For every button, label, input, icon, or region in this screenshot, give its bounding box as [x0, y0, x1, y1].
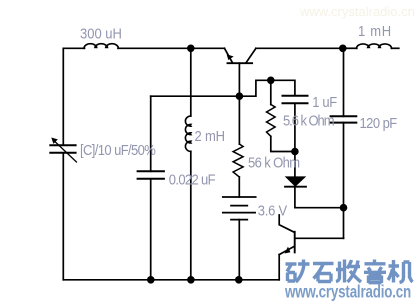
wire 1mH tail — [392, 47, 399, 49]
wire 5.6k branch top — [270, 80, 272, 104]
wire 1uF bottom to diode — [294, 103, 296, 177]
svg-text:0.022 uF: 0.022 uF — [169, 172, 215, 188]
wire 5.6k bottom to node — [271, 136, 295, 151]
svg-text:1 uF: 1 uF — [312, 94, 337, 110]
char shou — [336, 260, 361, 283]
wire 0.022uF branch lower — [150, 179, 152, 280]
junction dot 5.6k top — [267, 77, 275, 85]
wire Q2 base horizontal — [296, 237, 344, 239]
wire base step to bias net — [239, 80, 295, 96]
junction dot bottom 2mH — [187, 276, 195, 284]
transistor Q2 collector stub — [279, 215, 294, 232]
transistor Q1 collector diagonal — [246, 48, 256, 63]
wire left vertical upper — [62, 48, 64, 145]
watermark url bottom — [284, 283, 411, 302]
wire 2mH branch lower — [190, 151, 192, 279]
arrow C1 variable head — [51, 138, 58, 144]
svg-text:2 mH: 2 mH — [194, 128, 224, 144]
wire Q2 emitter down — [278, 255, 280, 280]
transistor Q2 base bar — [294, 232, 296, 253]
wire right vertical upper — [343, 48, 345, 116]
wire right vertical lower — [343, 123, 345, 239]
wire top rail under label — [118, 47, 225, 49]
svg-text:56 k Ohm: 56 k Ohm — [248, 155, 300, 171]
char ji — [388, 260, 413, 283]
battery B1 plate long top — [223, 196, 256, 198]
battery B1 plate short — [231, 205, 247, 207]
junction dot bottom battery — [235, 276, 243, 284]
transistor Q1 emitter diagonal — [225, 48, 233, 63]
inductor L2 1 mH — [357, 44, 392, 48]
wire 1mH lead — [344, 47, 357, 49]
junction dot diode right — [340, 204, 348, 212]
junction dot bottom 0.022 — [147, 276, 155, 284]
svg-text:www.crystalradio.cn: www.crystalradio.cn — [299, 4, 415, 19]
svg-text:www.crystalradio.cn: www.crystalradio.cn — [284, 283, 411, 302]
wire R1 to battery — [238, 177, 240, 197]
resistor R1 56 k Ohm — [233, 144, 243, 177]
wire battery to bottom rail — [238, 220, 240, 280]
wire top rail collector segment — [256, 47, 344, 49]
junction dot top right — [339, 45, 347, 53]
wire diode to right net — [295, 187, 344, 208]
capacitor C2 0.022uF plates — [138, 171, 164, 179]
svg-text:5.6 k Ohm: 5.6 k Ohm — [283, 113, 334, 129]
arrow Q2 emitter PNP — [285, 247, 291, 254]
diode D1 — [286, 177, 305, 186]
junction dot Q1 base — [236, 92, 244, 100]
svg-text:120 pF: 120 pF — [360, 115, 397, 131]
wire left vertical lower — [62, 153, 64, 280]
transistor Q1 base bar — [228, 62, 253, 64]
arrow Q1 emitter PNP — [227, 54, 234, 60]
char yin — [364, 260, 386, 284]
capacitor C3 1uF plates — [283, 96, 308, 104]
inductor L1 300 uH — [84, 44, 118, 49]
capacitor C4 120 pF plates — [331, 116, 357, 122]
battery B1 plate long — [223, 212, 255, 214]
wire bottom rail — [63, 279, 279, 281]
svg-text:[C]/10 uF/50%: [C]/10 uF/50% — [80, 142, 156, 158]
resistor R2 5.6 k Ohm — [267, 105, 276, 137]
junction dot 1uF bottom — [291, 148, 299, 156]
svg-text:300 uH: 300 uH — [80, 26, 122, 42]
transistor Q2 emitter diagonal — [279, 246, 294, 254]
inductor L3 2 mH — [185, 116, 190, 151]
wire top rail left — [63, 47, 84, 49]
wire horizontal mid — [151, 95, 240, 97]
capacitor C1 variable plates — [50, 145, 75, 153]
svg-text:3.6 V: 3.6 V — [258, 203, 288, 219]
char kuang — [286, 260, 310, 283]
wire Q1 base down — [238, 63, 240, 144]
char shi — [313, 264, 334, 282]
wire 0.022uF branch upper — [150, 96, 152, 171]
svg-text:1 mH: 1 mH — [358, 24, 392, 40]
junction dot top 2mH — [187, 45, 195, 53]
watermark chinese characters — [286, 260, 413, 284]
wire 2mH branch upper — [190, 48, 192, 116]
capacitor C1 arrow line — [54, 140, 77, 162]
battery B1 plate short bottom — [231, 219, 247, 221]
diode D1 cathode bar — [285, 186, 306, 188]
